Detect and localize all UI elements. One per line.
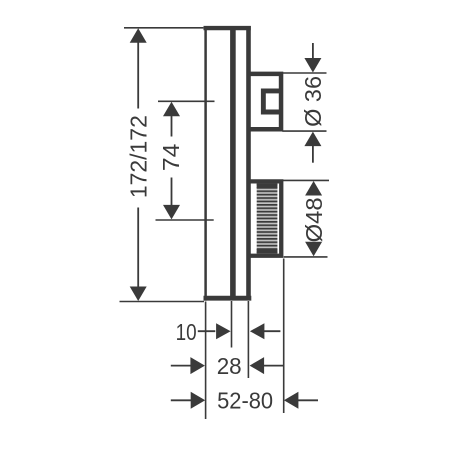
extension line A (plate back) bbox=[205, 302, 207, 420]
extension line B (plate front) bbox=[231, 301, 233, 348]
escutcheon middle vertical line (plate/sleeve step) bbox=[230, 26, 236, 301]
knurl top shade bbox=[257, 184, 278, 189]
extension line bottom (d48) bbox=[284, 256, 328, 258]
escutcheon bottom edge bbox=[204, 296, 252, 301]
svg-text:10: 10 bbox=[176, 319, 197, 345]
tail left (28 row) bbox=[171, 365, 192, 367]
arrow right onto B bbox=[216, 323, 231, 339]
arrow up onto d36 bottom bbox=[304, 132, 321, 147]
extension line top (d36) bbox=[282, 72, 326, 74]
svg-text:Ø48: Ø48 bbox=[301, 197, 327, 242]
extension line top (172/172) bbox=[124, 27, 203, 29]
arrow right onto A (28 row) bbox=[190, 357, 205, 374]
extension line C (sleeve front) bbox=[247, 301, 249, 378]
tail right (28 row) bbox=[264, 365, 284, 367]
svg-text:74: 74 bbox=[158, 143, 184, 171]
arrow down onto d36 top bbox=[304, 58, 321, 73]
svg-text:52-80: 52-80 bbox=[217, 388, 273, 414]
arrow left onto C (28 row) bbox=[250, 357, 265, 374]
tail right (52-80 row) bbox=[298, 399, 319, 401]
dimension tail below (d36) bbox=[312, 145, 314, 162]
thermostat knob outline (diameter 48) bbox=[249, 181, 281, 255]
arrow up inside d48 bbox=[305, 181, 322, 196]
dimension line 74 bbox=[171, 115, 173, 137]
arrow down 74 bbox=[163, 205, 180, 220]
escutcheon top edge bbox=[204, 26, 251, 30]
dimension tail above (d36) bbox=[312, 43, 314, 59]
arrow up 172/172 bbox=[130, 28, 147, 43]
svg-text:28: 28 bbox=[217, 353, 242, 379]
dimension line 172/172 bbox=[137, 42, 139, 109]
escutcheon right edge (sleeve front) bbox=[246, 26, 251, 301]
extension line top (74) bbox=[158, 100, 215, 102]
shut-off handle inner notch bbox=[263, 91, 281, 112]
thermostat knob knurled band bbox=[257, 184, 278, 254]
svg-text:172/172: 172/172 bbox=[125, 115, 151, 198]
extension line top (d48) bbox=[282, 179, 329, 181]
tail left (52-80 row) bbox=[171, 399, 192, 401]
arrow right onto A (52-80 row) bbox=[191, 392, 206, 409]
shut-off handle outline (diameter 36) bbox=[249, 74, 281, 129]
extension line bottom (74) bbox=[156, 219, 214, 221]
arrow up 74 bbox=[163, 102, 180, 117]
arrow left onto C (10 row) bbox=[250, 323, 265, 339]
extension line bottom (d36) bbox=[282, 130, 326, 132]
arrow down 172/172 bbox=[130, 287, 147, 302]
extension line D (knob front) bbox=[283, 259, 285, 414]
tail right (10 row) bbox=[264, 330, 281, 332]
arrow left onto D (52-80 row) bbox=[284, 392, 299, 409]
extension line bottom (172/172) bbox=[120, 301, 205, 303]
svg-text:Ø 36: Ø 36 bbox=[300, 76, 326, 127]
leader 10 bbox=[198, 330, 216, 332]
arrow down inside d48 bbox=[305, 242, 322, 256]
escutcheon plate left edge (wall side) bbox=[204, 26, 207, 301]
knurl bottom shade bbox=[257, 249, 278, 254]
